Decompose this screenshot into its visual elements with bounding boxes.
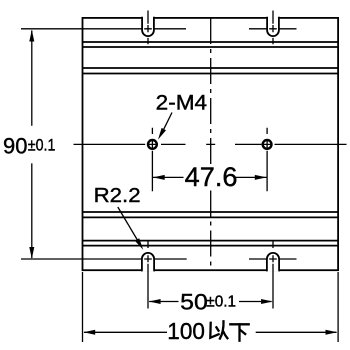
svg-text:R2.2: R2.2 <box>94 184 141 207</box>
svg-text:47.6: 47.6 <box>185 162 238 192</box>
svg-text:±0.1: ±0.1 <box>206 293 236 310</box>
svg-text:2-M4: 2-M4 <box>156 91 208 114</box>
svg-text:100: 100 <box>167 318 205 344</box>
svg-text:90: 90 <box>3 133 27 158</box>
svg-text:±0.1: ±0.1 <box>28 136 56 155</box>
svg-text:50: 50 <box>180 290 208 315</box>
